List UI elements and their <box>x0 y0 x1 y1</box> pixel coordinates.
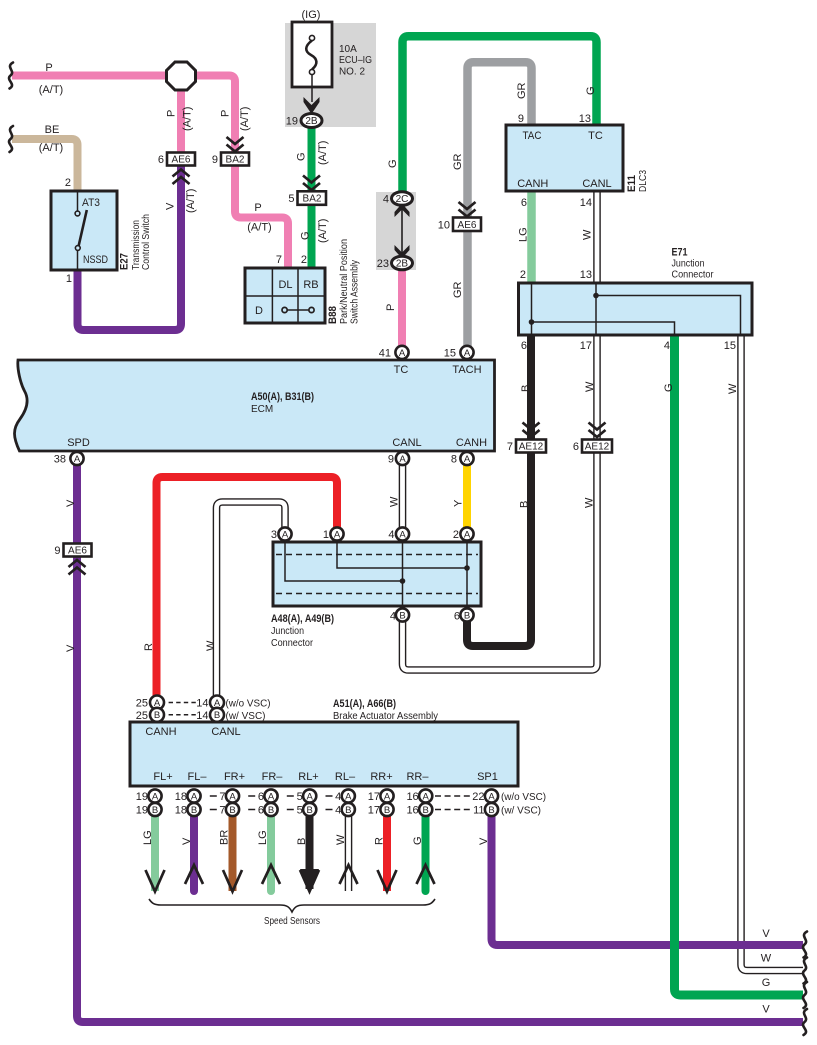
break symbol on BE wire left <box>9 126 13 152</box>
chevrons into AE6 pin 10 <box>459 202 476 217</box>
chevron up from speed sensor RR- <box>417 865 435 884</box>
wire V: E27 pin 1 to connector AE6 pin 6 <box>78 166 182 330</box>
svg-text:Connector: Connector <box>672 270 715 281</box>
svg-text:B: B <box>152 805 158 816</box>
svg-text:GR: GR <box>516 82 528 99</box>
svg-text:B: B <box>307 805 313 816</box>
terminal 4(A) at A48 <box>396 527 409 540</box>
svg-text:FL–: FL– <box>188 771 208 783</box>
svg-text:(w/o VSC): (w/o VSC) <box>501 792 546 803</box>
terminal 8(A) at ECM CANH <box>460 452 473 465</box>
svg-text:4: 4 <box>335 791 341 803</box>
svg-text:11: 11 <box>473 805 484 817</box>
svg-text:B: B <box>191 805 197 816</box>
svg-text:TACH: TACH <box>452 364 481 376</box>
brake actuator assembly A51(A), A66(B) <box>130 698 518 786</box>
terminal 19(A)/19(B) at brake actuator FL+ <box>136 789 162 816</box>
svg-text:GR: GR <box>452 153 464 170</box>
svg-text:10: 10 <box>438 220 450 232</box>
svg-text:19: 19 <box>286 116 298 128</box>
svg-text:AE6: AE6 <box>458 220 477 231</box>
svg-text:(A/T): (A/T) <box>185 189 197 213</box>
svg-text:A: A <box>191 791 198 802</box>
terminal 25(A) at brake actuator <box>136 696 164 710</box>
svg-text:17: 17 <box>368 791 380 803</box>
svg-text:13: 13 <box>579 113 591 125</box>
terminal 7(A)/7(B) at brake actuator FR+ <box>219 789 239 816</box>
svg-text:G: G <box>300 231 312 240</box>
break symbol on P wire left <box>9 63 13 89</box>
svg-text:4: 4 <box>335 805 341 817</box>
svg-text:A: A <box>488 791 495 802</box>
svg-text:B: B <box>519 501 531 508</box>
svg-text:RR–: RR– <box>406 771 429 783</box>
svg-text:FL+: FL+ <box>153 771 172 783</box>
svg-text:LG: LG <box>142 830 154 845</box>
svg-text:14: 14 <box>196 698 208 710</box>
terminal 9(A) at ECM CANL <box>396 452 409 465</box>
svg-text:V: V <box>181 837 193 845</box>
terminal 25(B) at brake actuator <box>136 708 164 722</box>
svg-text:W: W <box>584 381 596 392</box>
svg-text:18: 18 <box>175 791 187 803</box>
svg-text:19: 19 <box>136 791 148 803</box>
arrow down to speed sensor FL+ <box>146 870 165 892</box>
svg-text:(A/T): (A/T) <box>317 219 329 243</box>
svg-text:FR+: FR+ <box>224 771 245 783</box>
svg-text:V: V <box>762 1004 770 1016</box>
svg-text:DLC3: DLC3 <box>638 170 649 192</box>
svg-text:RR+: RR+ <box>370 771 392 783</box>
svg-text:6: 6 <box>454 611 460 623</box>
brace Speed Sensors <box>149 899 435 927</box>
svg-text:AE12: AE12 <box>585 442 610 453</box>
wire P: octagon node branch down to AE6 pin 6 <box>177 76 185 156</box>
connector AE6 pin 10 <box>438 218 481 232</box>
wire W: brake actuator RL- to speed sensor <box>345 812 353 891</box>
terminal 22(A)/11(B) at brake actuator SP1 <box>472 789 498 816</box>
svg-text:A: A <box>268 791 275 802</box>
connector AE12 pin 7 <box>507 440 546 454</box>
svg-text:6: 6 <box>573 441 579 453</box>
svg-text:4: 4 <box>388 529 394 541</box>
svg-text:13: 13 <box>580 269 592 281</box>
wire G: brake actuator RR- to speed sensor <box>422 812 430 891</box>
wire Y: ECM CANH pin 8(A) to A48 pin 2(A) <box>463 463 471 530</box>
svg-text:25: 25 <box>136 710 148 722</box>
svg-text:B: B <box>345 805 351 816</box>
svg-text:A: A <box>229 791 236 802</box>
svg-text:TC: TC <box>588 130 603 142</box>
svg-text:2B: 2B <box>396 259 409 270</box>
chevrons out of AE6 pin 9 <box>69 560 86 575</box>
wire W: ECM CANL pin 9(A) to A48 pin 4(A) <box>399 463 407 530</box>
svg-text:B: B <box>154 710 160 721</box>
wire BE: left break to E27 pin 2 <box>12 139 78 193</box>
svg-text:P: P <box>385 304 397 311</box>
svg-text:(IG): (IG) <box>302 9 321 21</box>
wire V: brake actuator SP1 to right break <box>492 812 804 945</box>
svg-text:2B: 2B <box>305 116 318 127</box>
svg-text:16: 16 <box>406 791 418 803</box>
dashes between terminals 25 and 14 <box>169 702 196 704</box>
svg-text:1: 1 <box>66 273 72 285</box>
connector BA2 pin 9 <box>212 153 249 167</box>
svg-text:BA2: BA2 <box>303 194 322 205</box>
svg-text:(A/T): (A/T) <box>247 222 271 234</box>
svg-text:5: 5 <box>297 805 303 817</box>
terminal 14(A) at brake actuator <box>196 696 270 710</box>
svg-text:5: 5 <box>297 791 303 803</box>
svg-text:B: B <box>488 805 494 816</box>
svg-text:A51(A), A66(B): A51(A), A66(B) <box>333 698 396 710</box>
wire R: A48 pin 1(A) to brake actuator pin 25(A) <box>157 477 338 699</box>
svg-text:6: 6 <box>258 805 264 817</box>
svg-text:Connector: Connector <box>271 638 314 649</box>
svg-text:CANH: CANH <box>145 726 176 738</box>
svg-text:(w/o VSC): (w/o VSC) <box>226 699 271 710</box>
svg-text:9: 9 <box>388 454 394 466</box>
wire G: fuse connector 2B pin 19 to B88 pin 2 <box>308 125 316 270</box>
shaded panel for fuse ECU-IG <box>285 23 376 127</box>
break symbol on G wire right <box>803 982 807 1008</box>
svg-text:G: G <box>762 977 771 989</box>
connector oval 2C pin 4 <box>383 192 413 206</box>
svg-text:E11: E11 <box>626 175 638 192</box>
svg-text:B: B <box>384 805 390 816</box>
svg-text:4: 4 <box>383 194 389 206</box>
svg-text:17: 17 <box>580 340 592 352</box>
svg-text:4: 4 <box>664 340 670 352</box>
svg-text:5: 5 <box>288 193 294 205</box>
svg-text:G: G <box>387 159 399 168</box>
connector oval 2B pin 23 <box>377 256 413 270</box>
svg-text:G: G <box>663 383 675 392</box>
break symbol on V wire right <box>803 932 807 958</box>
terminal 4(A)/4(B) at brake actuator RL- <box>335 789 355 816</box>
svg-text:18: 18 <box>175 805 187 817</box>
svg-text:P: P <box>45 62 52 74</box>
svg-text:W: W <box>582 229 594 240</box>
svg-text:7: 7 <box>507 441 513 453</box>
svg-text:(A/T): (A/T) <box>239 107 251 131</box>
wire P: left break through octagon node to BA2 pin 9 <box>12 76 235 156</box>
svg-text:RB: RB <box>303 279 318 291</box>
svg-text:AT3: AT3 <box>82 197 100 209</box>
svg-text:22: 22 <box>472 791 484 803</box>
wire G: E71 pin 4 to right break (over V wire) <box>675 333 804 995</box>
svg-text:B: B <box>399 610 405 621</box>
svg-text:P: P <box>254 202 261 214</box>
svg-text:AE6: AE6 <box>68 546 87 557</box>
wire P: connector 2B pin 23 to ECM pin 41(A) <box>398 266 406 350</box>
wire V: ECM SPD pin 38(A) through AE6 pin 9 to bottom right break <box>77 463 803 1022</box>
svg-text:Junction: Junction <box>271 626 304 637</box>
svg-text:23: 23 <box>377 258 389 270</box>
svg-text:DL: DL <box>278 279 292 291</box>
svg-text:A: A <box>74 454 81 465</box>
terminal 5(A)/5(B) at brake actuator RL+ <box>297 789 317 816</box>
svg-text:NSSD: NSSD <box>83 254 108 266</box>
svg-text:Switch Assembly: Switch Assembly <box>350 260 361 324</box>
svg-text:(w/ VSC): (w/ VSC) <box>501 806 541 817</box>
svg-text:38: 38 <box>54 454 66 466</box>
svg-text:A: A <box>399 348 406 359</box>
terminal 15(A) at ECM <box>460 346 473 359</box>
svg-text:A: A <box>423 791 430 802</box>
svg-text:W: W <box>761 953 772 965</box>
terminal 17(A)/17(B) at brake actuator RR+ <box>368 789 394 816</box>
svg-text:Y: Y <box>453 499 465 507</box>
svg-text:AE6: AE6 <box>172 155 191 166</box>
svg-text:19: 19 <box>136 805 148 817</box>
break symbol on W wire right <box>803 958 807 984</box>
wire BR: brake actuator FR+ to speed sensor <box>229 812 237 891</box>
svg-text:ECU–IG: ECU–IG <box>339 55 372 66</box>
svg-text:A: A <box>384 791 391 802</box>
connector AE6 pin 9 <box>54 544 91 558</box>
svg-text:CANH: CANH <box>517 178 548 190</box>
svg-text:AE12: AE12 <box>519 442 544 453</box>
terminal 41(A) at ECM <box>395 346 408 359</box>
wire P: BA2 pin 9 to B88 pin 7 <box>235 163 288 270</box>
svg-text:6: 6 <box>158 154 164 166</box>
svg-text:CANH: CANH <box>456 437 487 449</box>
svg-text:(A/T): (A/T) <box>39 142 63 154</box>
terminal 6(A)/6(B) at brake actuator FR- <box>258 789 278 816</box>
svg-text:LG: LG <box>257 830 269 845</box>
svg-text:B: B <box>229 805 235 816</box>
chevron up from speed sensor RL- <box>340 865 358 884</box>
svg-text:G: G <box>296 152 308 161</box>
wire V: brake actuator FL- to speed sensor <box>190 812 198 891</box>
svg-text:25: 25 <box>136 698 148 710</box>
switch assembly B88 Park/Neutral Position <box>245 239 361 324</box>
svg-text:A: A <box>399 454 406 465</box>
terminal 16(A)/16(B) at brake actuator RR- <box>406 789 432 816</box>
svg-text:CANL: CANL <box>211 726 240 738</box>
arrow down to speed sensor FR+ <box>223 870 242 892</box>
svg-text:B: B <box>520 385 532 392</box>
svg-text:TC: TC <box>394 364 409 376</box>
svg-text:W: W <box>727 383 739 394</box>
terminal 18(A)/18(B) at brake actuator FL- <box>175 789 201 816</box>
svg-text:(A/T): (A/T) <box>39 84 63 96</box>
wire B: E71 pin 6 through AE12 pin 7 to A48 pin 6(B) <box>467 333 531 646</box>
svg-text:7: 7 <box>219 805 225 817</box>
svg-text:FR–: FR– <box>262 771 284 783</box>
svg-text:V: V <box>165 202 177 210</box>
chevrons into AE12 pin 7 <box>523 423 540 438</box>
svg-text:2: 2 <box>301 254 307 266</box>
svg-text:A: A <box>399 529 406 540</box>
svg-text:A: A <box>334 529 341 540</box>
chevrons into BA2 pin 9 <box>227 137 244 152</box>
wire GR: DLC3 TAC pin 9 down through AE6 pin 10 to ECM TACH pin 15(A) <box>468 62 532 350</box>
break symbol on V wire bottom right <box>803 1009 807 1035</box>
wire LG: brake actuator FL+ to speed sensor <box>151 812 159 891</box>
svg-text:6: 6 <box>521 197 527 209</box>
svg-text:Speed Sensors: Speed Sensors <box>264 916 320 927</box>
wire W: connector AE12 pin 6 to A48 pin 4(B) <box>403 451 598 670</box>
wire LG: brake actuator FR- to speed sensor <box>267 812 275 891</box>
junction connector A48(A), A49(B) <box>271 529 481 649</box>
svg-text:A50(A), B31(B): A50(A), B31(B) <box>251 391 314 403</box>
svg-text:B: B <box>464 610 470 621</box>
svg-text:14: 14 <box>196 710 208 722</box>
svg-text:9: 9 <box>54 545 60 557</box>
svg-text:3: 3 <box>271 529 277 541</box>
svg-text:CANL: CANL <box>392 437 421 449</box>
svg-text:A: A <box>464 529 471 540</box>
svg-text:16: 16 <box>406 805 418 817</box>
wire G: connector 2C pin 4 up over to DLC3 TC pin 13 <box>403 36 597 195</box>
terminal 4(B) at A48 <box>396 608 409 621</box>
svg-text:BR: BR <box>219 830 231 845</box>
svg-text:B88: B88 <box>327 306 339 324</box>
chevron up from speed sensor FL- <box>185 865 203 884</box>
ECM A50(A), B31(B) <box>15 348 495 466</box>
connector E11 DLC3 <box>506 113 649 209</box>
svg-text:RL+: RL+ <box>298 771 319 783</box>
svg-text:2: 2 <box>520 269 526 281</box>
connector AE6 pin 6 <box>158 153 195 167</box>
svg-text:A: A <box>307 791 314 802</box>
svg-text:Junction: Junction <box>672 259 705 270</box>
arrow into connector 2B pin 19 <box>304 97 320 114</box>
svg-text:NO. 2: NO. 2 <box>339 67 365 78</box>
terminal 6(B) at A48 <box>460 608 473 621</box>
svg-text:CANL: CANL <box>582 178 611 190</box>
svg-text:G: G <box>585 86 597 95</box>
svg-text:P: P <box>166 110 178 117</box>
wire W: DLC3 CANL pin 14 to E71 pin 13 <box>593 189 601 285</box>
svg-text:14: 14 <box>580 197 592 209</box>
svg-text:A: A <box>152 791 159 802</box>
svg-text:Brake Actuator Assembly: Brake Actuator Assembly <box>333 711 438 722</box>
svg-text:LG: LG <box>518 227 530 242</box>
svg-text:10A: 10A <box>339 44 357 55</box>
svg-text:B: B <box>296 838 308 845</box>
connector oval 2B pin 19 <box>286 114 322 128</box>
chevrons into AE12 pin 6 <box>589 423 606 438</box>
svg-text:R: R <box>143 643 155 651</box>
wire W: E71 pin 17 to connector AE12 pin 6 <box>593 333 601 441</box>
svg-text:15: 15 <box>444 348 456 360</box>
svg-text:17: 17 <box>368 805 380 817</box>
connector AE12 pin 6 <box>573 440 612 454</box>
svg-text:SPD: SPD <box>67 437 90 449</box>
wire W: E71 pin 15 to right break <box>741 333 803 971</box>
svg-text:W: W <box>389 496 401 507</box>
terminal 14(B) at brake actuator <box>196 708 265 722</box>
svg-text:V: V <box>65 499 77 507</box>
terminal 3(A) at A48 <box>278 527 291 540</box>
svg-text:SP1: SP1 <box>477 771 498 783</box>
svg-text:6: 6 <box>258 791 264 803</box>
dashes between brake actuator terminals <box>210 796 333 810</box>
svg-text:Park/Neutral Position: Park/Neutral Position <box>339 239 350 324</box>
svg-text:1: 1 <box>323 529 329 541</box>
svg-text:(A/T): (A/T) <box>317 141 329 165</box>
svg-text:A: A <box>464 454 471 465</box>
arrow down to speed sensor RL+ (solid) <box>300 869 319 893</box>
terminal 1(A) at A48 <box>330 527 343 540</box>
svg-text:B: B <box>214 710 220 721</box>
svg-text:ECM: ECM <box>251 404 273 415</box>
svg-text:A48(A), A49(B): A48(A), A49(B) <box>271 613 334 625</box>
svg-text:2: 2 <box>453 529 459 541</box>
connector BA2 pin 5 <box>288 191 326 205</box>
svg-text:GR: GR <box>452 281 464 298</box>
svg-text:41: 41 <box>379 348 391 360</box>
svg-text:BA2: BA2 <box>226 155 245 166</box>
svg-text:A: A <box>345 791 352 802</box>
svg-text:9: 9 <box>212 154 218 166</box>
svg-text:W: W <box>335 834 347 845</box>
octagon node on P wire <box>167 62 196 90</box>
chevron up from speed sensor FR- <box>262 865 280 884</box>
svg-text:G: G <box>412 836 424 845</box>
svg-text:A: A <box>464 348 471 359</box>
svg-text:7: 7 <box>276 254 282 266</box>
shaded panel for connectors 2C/2B <box>376 192 416 270</box>
chevrons into BA2 pin 5 <box>303 176 320 191</box>
svg-text:Control Switch: Control Switch <box>141 214 152 270</box>
svg-text:(A/T): (A/T) <box>182 107 194 131</box>
svg-text:B: B <box>423 805 429 816</box>
wire R: brake actuator RR+ to speed sensor <box>383 812 391 891</box>
svg-text:R: R <box>374 837 386 845</box>
svg-text:TAC: TAC <box>523 130 542 142</box>
svg-text:2C: 2C <box>396 194 409 205</box>
svg-text:E27: E27 <box>119 253 131 270</box>
switch E27 Transmission Control Switch <box>51 177 152 285</box>
double-headed arrow 2C to 2B <box>395 204 410 259</box>
svg-text:W: W <box>584 497 596 508</box>
junction connector E71 <box>519 247 753 353</box>
arrow down to speed sensor RR+ <box>378 870 397 892</box>
wire LG: DLC3 CANH pin 6 to E71 pin 2 <box>527 189 536 285</box>
wire B: brake actuator RL+ to speed sensor <box>306 812 314 889</box>
svg-text:8: 8 <box>451 454 457 466</box>
chevrons out of AE6 pin 6 <box>173 170 190 185</box>
svg-text:P: P <box>220 110 232 117</box>
svg-text:V: V <box>762 928 770 940</box>
svg-text:2: 2 <box>65 177 71 189</box>
svg-text:BE: BE <box>45 124 60 136</box>
svg-text:15: 15 <box>724 340 736 352</box>
svg-text:6: 6 <box>521 340 527 352</box>
svg-text:D: D <box>255 305 263 317</box>
svg-text:E71: E71 <box>672 247 688 259</box>
svg-text:(w/ VSC): (w/ VSC) <box>226 711 266 722</box>
svg-text:7: 7 <box>219 791 225 803</box>
wire W: A48 pin 3(A) to brake actuator pin 14(A) <box>217 502 286 699</box>
svg-text:B: B <box>268 805 274 816</box>
svg-text:RL–: RL– <box>335 771 356 783</box>
fuse 10A ECU-IG NO.2 <box>292 9 372 102</box>
svg-text:V: V <box>478 837 490 845</box>
terminal 2(A) at A48 <box>460 527 473 540</box>
svg-text:V: V <box>65 644 77 652</box>
svg-text:W: W <box>205 640 217 651</box>
terminal 38(A) at ECM SPD <box>70 452 83 465</box>
svg-text:A: A <box>282 529 289 540</box>
svg-text:9: 9 <box>518 113 524 125</box>
